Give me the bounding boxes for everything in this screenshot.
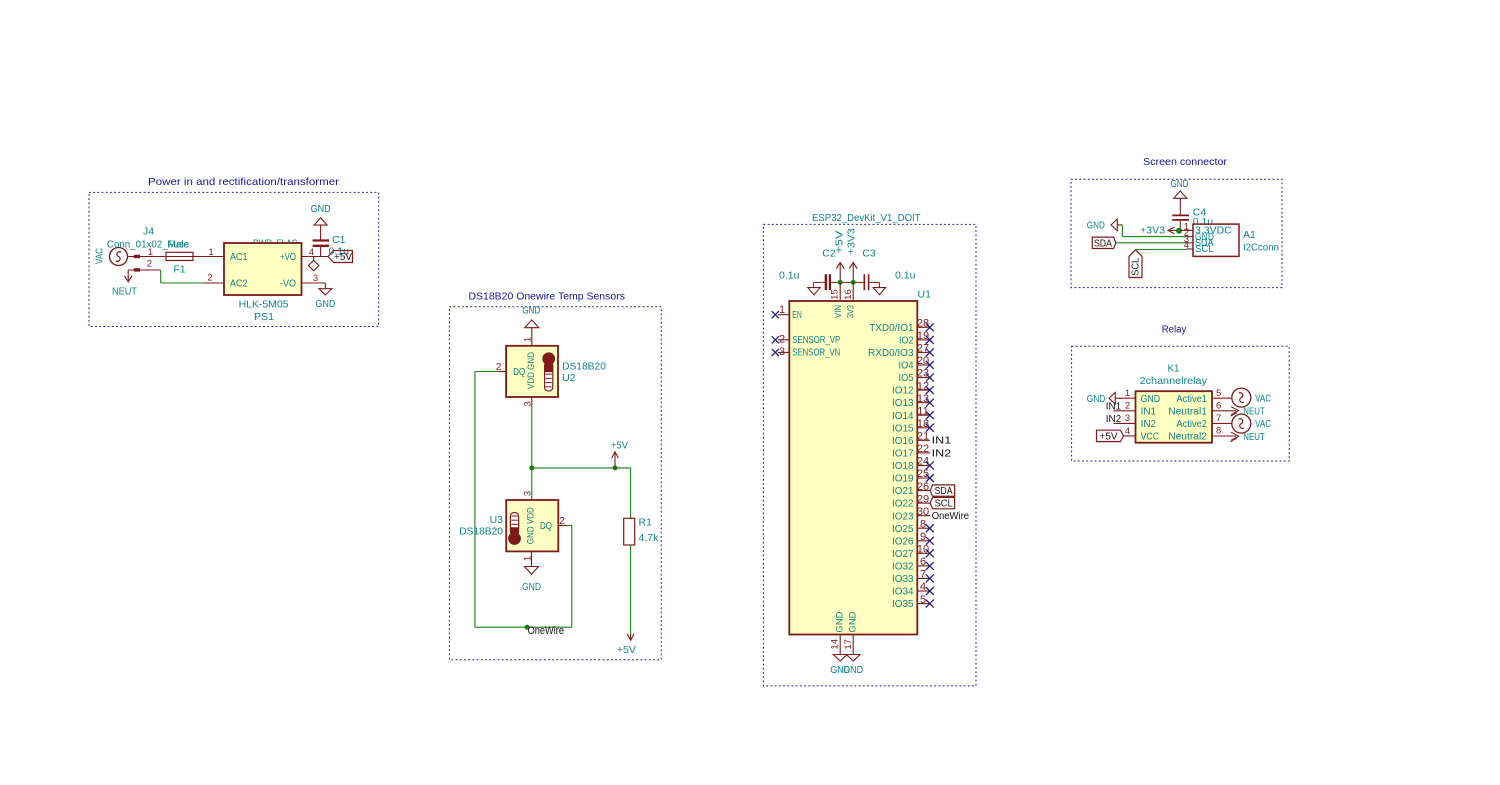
svg-text:8: 8 bbox=[1216, 426, 1221, 437]
svg-text:+5V: +5V bbox=[611, 440, 628, 452]
svg-text:IO26: IO26 bbox=[892, 535, 914, 547]
svg-text:IN1: IN1 bbox=[932, 435, 952, 447]
svg-text:DS18B20 Onewire Temp Sensors: DS18B20 Onewire Temp Sensors bbox=[468, 291, 625, 303]
svg-text:SDA: SDA bbox=[935, 485, 953, 497]
svg-text:+3V3: +3V3 bbox=[1140, 224, 1165, 236]
svg-text:IO33: IO33 bbox=[892, 573, 914, 585]
svg-text:2: 2 bbox=[559, 516, 565, 527]
svg-text:IO32: IO32 bbox=[892, 561, 914, 573]
svg-text:SENSOR_VP: SENSOR_VP bbox=[792, 334, 840, 346]
svg-text:IN1: IN1 bbox=[1141, 405, 1157, 417]
svg-text:DS18B20: DS18B20 bbox=[459, 526, 503, 538]
svg-text:14: 14 bbox=[830, 639, 841, 650]
svg-text:3: 3 bbox=[779, 346, 785, 358]
svg-text:4.7k: 4.7k bbox=[639, 532, 660, 544]
svg-text:C1: C1 bbox=[332, 234, 346, 246]
svg-text:IO2: IO2 bbox=[899, 334, 914, 346]
svg-text:17: 17 bbox=[843, 639, 854, 650]
svg-text:IO27: IO27 bbox=[892, 548, 914, 560]
svg-text:IO22: IO22 bbox=[892, 498, 914, 510]
svg-text:IN2: IN2 bbox=[932, 447, 952, 459]
svg-text:VDD GND: VDD GND bbox=[526, 352, 537, 389]
svg-text:IO21: IO21 bbox=[892, 485, 914, 497]
svg-text:4: 4 bbox=[309, 247, 314, 258]
svg-text:Active1: Active1 bbox=[1176, 393, 1207, 405]
svg-text:IN2: IN2 bbox=[1106, 414, 1122, 425]
svg-text:U1: U1 bbox=[918, 289, 932, 301]
svg-text:U3: U3 bbox=[490, 514, 504, 526]
svg-text:VCC: VCC bbox=[1141, 431, 1160, 443]
svg-text:SCL: SCL bbox=[935, 498, 953, 510]
svg-text:K1: K1 bbox=[1168, 363, 1180, 375]
svg-text:IO4: IO4 bbox=[899, 360, 914, 372]
svg-text:4: 4 bbox=[1125, 426, 1130, 437]
svg-text:3: 3 bbox=[313, 273, 318, 284]
svg-text:GND: GND bbox=[522, 581, 541, 593]
svg-text:AC2: AC2 bbox=[230, 277, 248, 289]
svg-text:1: 1 bbox=[523, 337, 534, 342]
svg-text:SENSOR_VN: SENSOR_VN bbox=[792, 347, 840, 359]
svg-text:2: 2 bbox=[207, 273, 212, 284]
svg-text:Fuse: Fuse bbox=[167, 239, 189, 251]
svg-text:RXD0/IO3: RXD0/IO3 bbox=[868, 347, 914, 359]
svg-text:I2Cconn: I2Cconn bbox=[1243, 242, 1279, 254]
svg-text:NEUT: NEUT bbox=[1243, 431, 1265, 443]
svg-text:GND: GND bbox=[1087, 220, 1105, 232]
svg-text:VIN: VIN bbox=[833, 305, 844, 318]
svg-text:IO34: IO34 bbox=[892, 586, 914, 598]
svg-text:Neutral1: Neutral1 bbox=[1168, 405, 1207, 417]
svg-text:SCL: SCL bbox=[1130, 258, 1142, 276]
svg-text:+5V: +5V bbox=[617, 644, 636, 656]
svg-text:Active2: Active2 bbox=[1176, 418, 1207, 430]
svg-text:DQ: DQ bbox=[540, 520, 552, 532]
svg-text:IN2: IN2 bbox=[1141, 418, 1157, 430]
svg-text:VAC: VAC bbox=[1255, 393, 1271, 405]
svg-text:GND: GND bbox=[848, 611, 859, 632]
svg-text:R1: R1 bbox=[639, 517, 653, 529]
svg-text:U2: U2 bbox=[562, 372, 576, 384]
svg-text:Neutral2: Neutral2 bbox=[1168, 431, 1207, 443]
svg-text:A1: A1 bbox=[1243, 229, 1256, 241]
svg-text:IO23: IO23 bbox=[892, 510, 914, 522]
svg-text:2: 2 bbox=[1125, 401, 1130, 412]
svg-text:C3: C3 bbox=[862, 248, 876, 260]
svg-text:+VO: +VO bbox=[280, 251, 296, 263]
svg-text:3V3: 3V3 bbox=[846, 305, 857, 318]
svg-text:IO13: IO13 bbox=[892, 397, 914, 409]
svg-text:+5V: +5V bbox=[334, 251, 352, 263]
svg-text:SDA: SDA bbox=[1094, 237, 1112, 249]
svg-text:3: 3 bbox=[522, 491, 533, 496]
svg-text:PS1: PS1 bbox=[254, 311, 274, 323]
svg-text:IO16: IO16 bbox=[892, 435, 914, 447]
svg-text:IO15: IO15 bbox=[892, 422, 914, 434]
svg-text:DS18B20: DS18B20 bbox=[562, 361, 606, 373]
svg-text:3: 3 bbox=[1125, 413, 1130, 424]
svg-text:Power in and rectification/tra: Power in and rectification/transformer bbox=[148, 176, 340, 188]
svg-text:OneWire: OneWire bbox=[932, 510, 969, 522]
svg-text:1: 1 bbox=[148, 247, 153, 258]
svg-text:Relay: Relay bbox=[1162, 325, 1187, 336]
svg-text:ESP32_DevKit_V1_DOIT: ESP32_DevKit_V1_DOIT bbox=[812, 212, 921, 224]
svg-text:1: 1 bbox=[522, 556, 533, 561]
svg-text:NEUT: NEUT bbox=[112, 286, 138, 298]
svg-text:IO17: IO17 bbox=[892, 447, 914, 459]
svg-text:6: 6 bbox=[1216, 400, 1221, 411]
svg-text:GND: GND bbox=[835, 611, 846, 632]
svg-text:GND: GND bbox=[311, 203, 331, 215]
svg-text:GND: GND bbox=[315, 298, 335, 310]
svg-text:VAC: VAC bbox=[1255, 418, 1271, 430]
svg-text:2channelrelay: 2channelrelay bbox=[1140, 375, 1208, 387]
svg-text:GND: GND bbox=[843, 664, 863, 676]
svg-text:IO18: IO18 bbox=[892, 460, 914, 472]
svg-text:5: 5 bbox=[1216, 388, 1221, 399]
svg-text:1: 1 bbox=[779, 304, 785, 316]
svg-text:IN1: IN1 bbox=[1106, 401, 1122, 412]
svg-text:16: 16 bbox=[843, 289, 854, 300]
svg-text:IO19: IO19 bbox=[892, 473, 914, 485]
svg-text:GND VDD: GND VDD bbox=[526, 507, 537, 544]
svg-text:AC1: AC1 bbox=[230, 251, 248, 263]
svg-text:IO14: IO14 bbox=[892, 410, 914, 422]
svg-text:2: 2 bbox=[779, 333, 785, 345]
svg-text:J4: J4 bbox=[143, 226, 154, 238]
svg-text:TXD0/IO1: TXD0/IO1 bbox=[869, 322, 913, 334]
svg-text:1: 1 bbox=[1125, 388, 1130, 399]
svg-text:+3V3: +3V3 bbox=[846, 228, 857, 255]
svg-text:0.1u: 0.1u bbox=[895, 269, 916, 281]
svg-text:2: 2 bbox=[496, 362, 502, 373]
svg-text:SCL: SCL bbox=[1195, 244, 1214, 255]
svg-text:DQ: DQ bbox=[513, 366, 525, 378]
svg-text:0.1u: 0.1u bbox=[779, 269, 800, 281]
svg-text:IO35: IO35 bbox=[892, 598, 914, 610]
svg-text:VAC: VAC bbox=[93, 248, 105, 264]
svg-text:GND: GND bbox=[1171, 178, 1189, 190]
svg-text:7: 7 bbox=[1216, 413, 1221, 424]
svg-text:+5V: +5V bbox=[834, 230, 845, 253]
svg-text:GND: GND bbox=[522, 304, 540, 316]
svg-text:OneWire: OneWire bbox=[528, 625, 564, 637]
svg-text:GND: GND bbox=[1087, 393, 1106, 405]
svg-text:+5V: +5V bbox=[1100, 431, 1118, 443]
svg-text:2: 2 bbox=[147, 259, 152, 270]
svg-text:IO5: IO5 bbox=[899, 372, 914, 384]
svg-text:15: 15 bbox=[830, 289, 841, 300]
svg-text:Screen connector: Screen connector bbox=[1143, 156, 1227, 168]
svg-text:GND: GND bbox=[1141, 393, 1161, 405]
svg-text:EN: EN bbox=[792, 309, 802, 321]
svg-text:IO25: IO25 bbox=[892, 523, 914, 535]
svg-text:3: 3 bbox=[523, 401, 534, 406]
svg-text:HLK-5M05: HLK-5M05 bbox=[239, 299, 289, 311]
svg-text:IO12: IO12 bbox=[892, 385, 914, 397]
svg-text:F1: F1 bbox=[173, 264, 185, 276]
svg-text:-VO: -VO bbox=[280, 277, 296, 289]
svg-text:1: 1 bbox=[208, 247, 213, 258]
